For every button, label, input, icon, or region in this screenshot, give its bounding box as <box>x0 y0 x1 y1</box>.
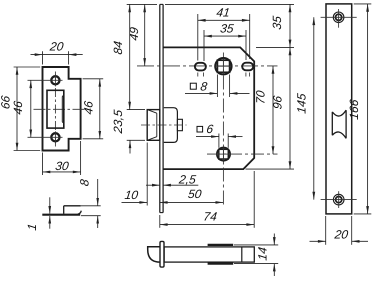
dimension 41 (top, oval hole spacing) <box>197 14 199 61</box>
dimension 20 (strike plate top width) <box>42 51 44 64</box>
lock body case outline <box>163 47 254 169</box>
lower hole crosshair <box>217 153 230 155</box>
svg-text:20: 20 <box>48 40 64 54</box>
dimension 66 (strike plate overall height) <box>14 66 41 68</box>
dimension 23,5 (latch height) <box>127 139 145 141</box>
dimension 46 left (screw hole spacing) <box>30 80 32 137</box>
svg-text:35: 35 <box>270 15 284 30</box>
dimension 10 (latch protrusion) <box>146 143 148 206</box>
latch hole bent tab line <box>61 97 63 122</box>
svg-text:30: 30 <box>54 159 69 173</box>
strike plate latch hole <box>47 90 64 128</box>
latch bolt bevel lines <box>147 110 157 114</box>
dimension 46 right (middle section height) <box>83 78 104 80</box>
strike plate screw hole top <box>51 76 59 84</box>
spindle vertical centerline <box>222 53 224 205</box>
dimension 1 (plate thickness) <box>49 197 51 213</box>
dimension 70 (spindle axis to lower hole axis) <box>272 66 274 154</box>
strike profile bent tab <box>63 206 65 214</box>
latch centerline <box>141 124 187 126</box>
faceplate bottom screw hole <box>333 194 344 205</box>
strike plate outline (front view) <box>43 67 81 151</box>
dimension 20 (faceplate width) <box>325 216 327 245</box>
spindle follower circle <box>215 58 231 74</box>
dimension 96 (case height) <box>246 168 295 170</box>
lower square hole 6mm <box>219 149 229 159</box>
dimension square-8 (spindle hole) <box>216 75 218 98</box>
strike screw bottom vertical crosshair <box>54 131 56 143</box>
latch bolt head (side view) <box>147 110 160 141</box>
top screw crosshair <box>321 16 357 18</box>
strike plate horizontal centerline <box>34 108 88 110</box>
dimension 145 (screw hole spacing) <box>313 17 315 199</box>
right oval center dashes <box>245 73 247 77</box>
spindle crosshair <box>216 65 232 67</box>
svg-text:14: 14 <box>255 246 269 261</box>
dimension 166 (faceplate height) <box>354 3 372 5</box>
svg-text:84: 84 <box>111 40 125 55</box>
svg-text:35: 35 <box>219 21 234 35</box>
dimension 8 (profile tab height) <box>81 205 101 207</box>
svg-text:23,5: 23,5 <box>111 109 125 135</box>
svg-text:49: 49 <box>127 26 141 41</box>
dimension 35 right (faceplate top to case top) <box>165 3 294 5</box>
dimension 49 (faceplate top to spindle axis) <box>127 3 157 5</box>
upper holes horizontal centerline <box>137 65 278 67</box>
lower follower circle <box>217 148 230 161</box>
dimension 50 (backset) <box>160 201 224 203</box>
dimension 84 (faceplate top to latch top) <box>127 109 145 111</box>
strike profile lip hook <box>78 211 82 214</box>
dimension 74 (case depth) <box>159 215 161 228</box>
strike plate screw hole bottom centerline horizontal <box>28 136 63 138</box>
dimension 2,5 (faceplate thickness) <box>146 184 160 186</box>
svg-text:145: 145 <box>295 92 309 114</box>
spindle square hole 8mm <box>217 60 229 72</box>
strike screw top vertical crosshair <box>54 74 56 86</box>
svg-text:50: 50 <box>187 187 202 201</box>
svg-text:74: 74 <box>203 209 218 223</box>
latch housing inside case <box>164 108 178 143</box>
dimension 30 (strike plate lower width) <box>42 153 44 176</box>
strike plate screw hole top centerline horizontal <box>28 79 63 81</box>
left oval mounting hole <box>195 63 206 71</box>
svg-text:166: 166 <box>347 98 361 120</box>
dimension 35 (top, oval inner spacing) <box>203 30 205 61</box>
bottom screw crosshair <box>321 199 357 201</box>
svg-text:46: 46 <box>82 100 96 115</box>
latch tail end cap divider <box>241 247 243 262</box>
faceplate front view outline <box>326 4 352 214</box>
strike plate screw hole bottom <box>51 133 59 141</box>
dimension square-6 (lower hole) <box>218 134 220 148</box>
svg-text:10: 10 <box>124 188 139 202</box>
latch spring box <box>177 119 182 130</box>
strike plate vertical centerline <box>54 72 56 148</box>
left oval center dashes <box>197 73 199 77</box>
right oval mounting hole <box>242 63 253 71</box>
svg-text:46: 46 <box>11 100 25 115</box>
latch sleeve thick top <box>208 244 234 246</box>
svg-text:20: 20 <box>333 227 349 241</box>
strike profile base plate <box>42 214 80 216</box>
latch detail head <box>148 247 161 262</box>
latch sleeve thick bottom <box>208 263 234 265</box>
lower hole horizontal centerline <box>207 153 278 155</box>
svg-text:70: 70 <box>253 89 267 104</box>
faceplate latch slot <box>332 110 346 138</box>
lock faceplate (side view) <box>159 4 161 212</box>
latch detail flange <box>160 241 164 267</box>
faceplate top screw hole <box>333 12 344 23</box>
svg-text:2,5: 2,5 <box>177 172 197 186</box>
latch detail tail bar <box>164 247 254 262</box>
dimension 14 (latch bar height) <box>234 244 278 246</box>
svg-text:41: 41 <box>216 6 231 20</box>
